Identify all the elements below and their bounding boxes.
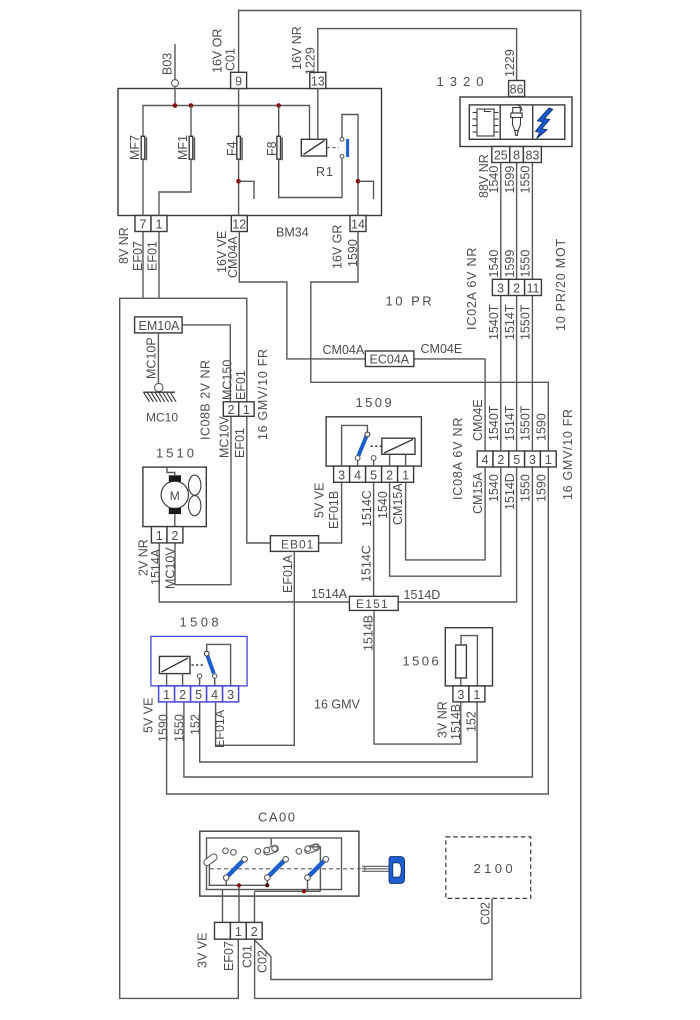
svg-text:2: 2 <box>386 468 393 482</box>
switch position capsule 3 <box>296 843 320 855</box>
wire BM34 pin 1 to EF07 rail <box>158 232 160 299</box>
pin 2 of 1508 <box>175 686 191 702</box>
svg-text:2: 2 <box>497 453 504 467</box>
svg-text:CM04A: CM04A <box>226 236 240 278</box>
svg-text:E151: E151 <box>356 597 389 611</box>
junction dot pin 1 bus <box>237 883 241 887</box>
svg-text:1590: 1590 <box>157 714 171 742</box>
pin 1 of 1510 <box>151 527 167 543</box>
svg-text:1514T: 1514T <box>503 405 517 441</box>
component 1320 (engine ECU function box) <box>460 97 572 147</box>
svg-text:IC08B 2V NR: IC08B 2V NR <box>199 359 213 440</box>
svg-text:3V NR: 3V NR <box>436 701 450 738</box>
svg-text:EM10A: EM10A <box>139 319 181 333</box>
svg-text:1590: 1590 <box>534 413 548 441</box>
svg-text:EF07: EF07 <box>131 241 145 271</box>
svg-text:1: 1 <box>545 453 552 467</box>
wire stub from pin-14 junction <box>358 181 374 199</box>
dashed actuator link of 1509 <box>371 445 382 447</box>
wire MC10P: EM10A to ground MC10 <box>157 333 159 383</box>
svg-text:1: 1 <box>156 218 163 232</box>
svg-text:1599: 1599 <box>503 166 517 194</box>
svg-text:MF1: MF1 <box>176 135 190 160</box>
pin 3 of 1509 <box>334 466 350 482</box>
component 2100 (dashed box) <box>446 837 531 899</box>
svg-text:1550T: 1550T <box>519 405 533 441</box>
pin blank of CA00 <box>215 922 231 939</box>
svg-text:4: 4 <box>211 688 218 702</box>
fuse F8 <box>278 106 280 137</box>
svg-text:1550T: 1550T <box>519 304 533 340</box>
svg-text:16 GMV/10 FR: 16 GMV/10 FR <box>256 348 270 440</box>
wire 1514C: 1509 pin 5 to splice E151 <box>373 482 375 596</box>
pivot contact of 1509 <box>365 432 370 437</box>
pin 9 of BM34 <box>231 72 247 88</box>
key icon <box>362 866 390 871</box>
motor brushes <box>169 475 181 481</box>
svg-text:1514D: 1514D <box>503 473 517 510</box>
svg-text:1510: 1510 <box>156 446 197 461</box>
svg-text:1590: 1590 <box>534 474 548 502</box>
pin 5 of 1508 <box>191 686 207 702</box>
svg-text:1540: 1540 <box>487 166 501 194</box>
fuse MF7 <box>141 136 145 159</box>
svg-text:1540: 1540 <box>487 474 501 502</box>
relay coil of 1508 <box>159 656 190 673</box>
icon IC chip in 1320 <box>473 109 499 136</box>
wire 1229: BM34 pin 13 to 1320 pin 86 <box>318 29 517 81</box>
svg-text:1540: 1540 <box>376 491 390 519</box>
svg-text:MC10V: MC10V <box>164 547 178 589</box>
svg-text:CM15A: CM15A <box>391 483 405 525</box>
svg-text:3: 3 <box>227 688 234 702</box>
connector IC02A pin 3 <box>492 279 508 295</box>
splice EB01 <box>270 536 318 552</box>
pin 1 of CA00 <box>230 922 246 939</box>
wire internal supply rail of BM34 <box>143 106 310 140</box>
svg-text:1550: 1550 <box>519 474 533 502</box>
svg-text:R1: R1 <box>316 165 334 179</box>
svg-text:1590: 1590 <box>346 239 360 267</box>
contact above pin 4 of 1508 <box>213 674 217 678</box>
svg-text:3V VE: 3V VE <box>196 933 210 968</box>
junction dot lever 2 foot <box>265 883 269 887</box>
relay R1 contact blade (blue) <box>346 139 349 157</box>
svg-text:EF01: EF01 <box>146 241 160 271</box>
switch blade of 1508 (blue) <box>208 656 214 674</box>
svg-text:11: 11 <box>527 282 540 296</box>
svg-text:2: 2 <box>251 925 258 939</box>
pin 3 of 1508 <box>223 686 239 702</box>
pin 25 of 1320 <box>492 147 510 163</box>
svg-text:14: 14 <box>351 218 365 232</box>
svg-text:3: 3 <box>497 282 504 296</box>
wire 1514T: IC02A pin 2 to IC08A pin 5 <box>516 296 518 452</box>
svg-text:CM04A: CM04A <box>323 343 365 357</box>
wire EF01: connector 2-1 pin 1 to splice EB01 <box>247 416 271 543</box>
svg-text:5: 5 <box>195 688 202 702</box>
wire CM04E: splice EC04A to IC08A pin 4 <box>414 359 485 451</box>
wire 1550: IC08A pin 3 to 1508 pin 2 <box>184 467 533 777</box>
svg-text:25: 25 <box>494 149 508 163</box>
svg-text:MF7: MF7 <box>128 135 142 160</box>
pin 4 of 1509 <box>350 466 366 482</box>
svg-text:IC02A 6V NR: IC02A 6V NR <box>465 247 479 330</box>
motor M circle <box>161 481 188 508</box>
svg-text:1514D: 1514D <box>404 588 441 602</box>
wire right loop to capsule 3 <box>309 847 320 892</box>
switch position capsule 1 <box>203 848 237 867</box>
wire 1540: 1320 pin 25 to IC02A pin 3 <box>500 163 502 280</box>
svg-text:EF07: EF07 <box>222 941 236 971</box>
wire MC150: splice EM10A to connector 2-1 pin 2 <box>182 325 230 402</box>
svg-text:1506: 1506 <box>403 654 442 669</box>
fuse F4 <box>238 89 240 137</box>
connector 2-1 pin 1 <box>239 402 254 417</box>
svg-text:10 PR: 10 PR <box>386 294 435 309</box>
svg-text:MC10P: MC10P <box>145 337 159 379</box>
svg-text:CM15A: CM15A <box>471 472 485 514</box>
svg-text:13: 13 <box>311 75 325 89</box>
component BM34 (fuse/relay box) <box>118 89 382 216</box>
connector IC08A pin 4 <box>477 451 493 467</box>
svg-text:2100: 2100 <box>474 861 517 876</box>
dashed actuator link of 1508 <box>192 664 204 666</box>
wire 1508 pivot to pin 3 <box>207 644 231 686</box>
svg-text:1: 1 <box>235 925 242 939</box>
svg-text:1320: 1320 <box>437 74 490 89</box>
svg-text:86: 86 <box>510 83 524 97</box>
junction dot B03/rail <box>173 103 178 108</box>
contact pin5 of 1509 <box>371 456 376 461</box>
svg-text:1514A: 1514A <box>149 548 163 585</box>
dashed mechanical link line <box>210 868 362 870</box>
relay R1 contacts <box>340 137 344 141</box>
svg-text:3: 3 <box>457 688 464 702</box>
bus wire to pin 2 <box>255 890 321 892</box>
svg-text:3: 3 <box>338 468 345 482</box>
splice E151 <box>349 596 398 610</box>
svg-text:1229: 1229 <box>503 49 517 77</box>
pin 3 of 1506 <box>453 686 469 702</box>
wire 1590: BM34 pin 14 to IC08A pin 1 <box>311 232 549 452</box>
svg-text:IC08A 6V NR: IC08A 6V NR <box>451 417 465 500</box>
svg-text:CM04E: CM04E <box>471 399 485 441</box>
wire C01 loop: BM34 pin 9 up, across top, down right side, along bottom to CA00 pin 2 <box>239 11 581 999</box>
wire BM34 pin 7 to EF07 rail <box>142 232 144 299</box>
svg-text:MC10V: MC10V <box>218 416 232 458</box>
svg-text:1599: 1599 <box>503 250 517 278</box>
svg-text:C02: C02 <box>479 902 493 925</box>
ground MC10 <box>155 383 163 391</box>
svg-text:F8: F8 <box>265 141 279 156</box>
wire unnumbered pin of CA00 <box>222 890 224 923</box>
svg-text:1550: 1550 <box>173 714 187 742</box>
svg-text:3: 3 <box>529 453 536 467</box>
pin 4 of 1508 <box>207 686 223 702</box>
svg-text:16 GMV/10 FR: 16 GMV/10 FR <box>561 408 575 500</box>
icon lightning bolt in 1320 <box>536 108 553 139</box>
svg-text:4: 4 <box>482 453 489 467</box>
svg-text:C02: C02 <box>256 950 270 973</box>
pin 2 of 1509 <box>382 466 398 482</box>
wire 152: 1506 pin 1 to 1508 pin 5 <box>200 702 477 762</box>
svg-text:16V NR: 16V NR <box>290 26 304 70</box>
junction dot F8/rail <box>276 103 281 108</box>
fan blades <box>189 475 201 495</box>
wire 1514B: splice E151 to 1506 pin 3 <box>374 610 461 744</box>
wire CM15A: IC08A pin 4 to 1509 pin 1 <box>406 467 486 560</box>
wire EF01B: 1509 pin 3 to splice EB01 <box>319 482 342 543</box>
wire R1 common contact to pin 14 <box>342 115 358 216</box>
svg-text:5: 5 <box>513 453 520 467</box>
svg-text:F4: F4 <box>225 141 239 156</box>
svg-text:152: 152 <box>189 714 203 735</box>
svg-text:CM04E: CM04E <box>421 342 463 356</box>
wire 1550: 1320 pin 83 to IC02A pin 11 <box>531 163 533 280</box>
svg-text:1514T: 1514T <box>503 304 517 340</box>
component 1508 (fan relay, blue) <box>151 636 247 686</box>
svg-text:B03: B03 <box>161 53 175 75</box>
relay R1 coil <box>301 139 326 156</box>
wire capsule 1 to bus <box>209 865 226 886</box>
junction dot MF1/rail <box>189 103 194 108</box>
svg-text:4: 4 <box>354 468 361 482</box>
pin 1 of 1508 <box>159 686 175 702</box>
svg-text:1508: 1508 <box>180 615 223 630</box>
wire top feed to capsule 2 <box>270 838 272 846</box>
wire 1514A: 1510 pin 1 to splice E151 <box>159 543 349 602</box>
pin 12 of BM34 <box>231 216 247 232</box>
svg-text:1540T: 1540T <box>487 304 501 340</box>
svg-text:5V VE: 5V VE <box>142 698 156 733</box>
pin 1 of BM34 <box>151 216 167 232</box>
component 1506 (fan resistor) <box>445 628 492 686</box>
svg-text:MC150: MC150 <box>221 360 235 400</box>
junction dot below F4 <box>236 179 241 184</box>
switch position capsule 2 <box>255 844 279 856</box>
wire EF07/EF01 rail: CA00 pin 1 down, along bottom, up left side, rail to 2-1 connector <box>120 298 247 998</box>
svg-text:8: 8 <box>513 149 520 163</box>
svg-text:10 PR/20 MOT: 10 PR/20 MOT <box>554 238 568 331</box>
wire 1550T: IC02A pin 11 to IC08A pin 3 <box>531 296 533 452</box>
fuse MF1 <box>190 106 192 137</box>
component 1510 (fan motor) <box>143 467 206 526</box>
svg-text:BM34: BM34 <box>276 226 309 240</box>
pivot contact of 1508 <box>204 651 209 656</box>
svg-text:C01: C01 <box>241 945 255 968</box>
svg-text:EF01A: EF01A <box>213 709 227 748</box>
svg-text:16V GR: 16V GR <box>331 225 345 269</box>
switch lever 1 (blue) <box>227 860 244 877</box>
connector IC08A pin 1 <box>540 451 556 467</box>
wire 1540T: IC02A pin 3 to IC08A pin 2 <box>500 296 502 452</box>
wire MC10V: 1510 pin 2 to connector 2-1 pin 2 <box>175 416 231 584</box>
svg-text:EF01: EF01 <box>233 428 247 458</box>
splice EM10A <box>135 317 183 333</box>
wire 1590: IC08A pin 1 to 1508 pin 1 <box>167 467 549 794</box>
svg-text:1514C: 1514C <box>360 545 374 582</box>
splice EC04A <box>365 351 414 367</box>
node B03 battery feed <box>174 44 176 80</box>
wire C02: 2100 to CA00 pin 2 <box>255 898 492 979</box>
svg-text:1550: 1550 <box>519 250 533 278</box>
svg-text:1: 1 <box>473 688 480 702</box>
svg-text:5: 5 <box>370 468 377 482</box>
wire 1514D: IC08A pin 5 to splice E151 <box>398 467 516 602</box>
svg-text:12: 12 <box>232 218 246 232</box>
wire 1599: 1320 pin 8 to IC02A pin 2 <box>516 163 518 280</box>
bus wire to pin 1 <box>226 880 267 885</box>
connector IC02A pin 11 <box>525 279 542 295</box>
svg-text:16 GMV: 16 GMV <box>314 698 361 712</box>
pin 1 of 1509 <box>398 466 414 482</box>
connector IC02A pin 2 <box>509 279 525 295</box>
switch lever 2 (blue) <box>268 860 285 877</box>
connector 2-1 pin 2 <box>223 402 238 417</box>
svg-text:1509: 1509 <box>356 395 395 410</box>
svg-text:2: 2 <box>179 688 186 702</box>
pin 8 of 1320 <box>510 147 524 163</box>
svg-text:9: 9 <box>235 75 242 89</box>
svg-text:1540T: 1540T <box>487 405 501 441</box>
svg-text:1514B: 1514B <box>362 615 376 651</box>
wire CM04A: BM34 pin 12 to splice EC04A <box>239 232 365 359</box>
pin 5 of 1509 <box>366 466 382 482</box>
junction dot lever 3 foot <box>302 889 306 893</box>
svg-text:1: 1 <box>163 688 170 702</box>
svg-text:1: 1 <box>156 529 163 543</box>
svg-text:1: 1 <box>243 403 250 417</box>
svg-text:1514C: 1514C <box>360 490 374 527</box>
icon injector in 1320 <box>511 105 522 136</box>
contact pin4 of 1509 <box>355 456 360 461</box>
switch blade of 1509 (blue) <box>359 436 367 456</box>
pin 2 of 1510 <box>167 527 183 543</box>
svg-text:152: 152 <box>465 711 479 732</box>
wire 1509 pin 3 to switch pivot <box>342 425 368 466</box>
svg-text:C01: C01 <box>224 48 238 71</box>
resistor element <box>456 645 467 678</box>
svg-text:1550: 1550 <box>519 166 533 194</box>
svg-text:1514B: 1514B <box>449 704 463 740</box>
pin 86 of 1320 <box>509 81 525 97</box>
svg-text:1229: 1229 <box>304 47 318 75</box>
pin 2 of CA00 <box>246 922 262 939</box>
wire 1540: IC08A pin 2 to 1509 pin 2 <box>390 467 501 576</box>
wire EF01A: splice EB01 to 1508 pin 4 <box>216 551 295 745</box>
switch lever 3 (blue) <box>309 860 326 877</box>
pin 1 of 1506 <box>469 686 485 702</box>
contact above pin 5 of 1508 <box>197 674 201 678</box>
svg-text:EF01A: EF01A <box>281 554 295 593</box>
component 1509 (fan relay) <box>326 417 421 466</box>
svg-text:2: 2 <box>172 529 179 543</box>
svg-text:CA00: CA00 <box>258 810 297 825</box>
svg-text:MC10: MC10 <box>146 411 178 425</box>
wire stub from F4 junction <box>239 181 254 199</box>
svg-text:EF01: EF01 <box>234 370 248 400</box>
svg-text:1514A: 1514A <box>311 587 348 601</box>
connector IC08A pin 3 <box>525 451 541 467</box>
relay coil of 1509 <box>382 438 415 454</box>
svg-text:5V VE: 5V VE <box>313 483 327 518</box>
svg-text:83: 83 <box>525 149 539 163</box>
svg-text:M: M <box>170 489 180 503</box>
svg-text:1540: 1540 <box>487 250 501 278</box>
pin 13 of BM34 <box>310 72 326 88</box>
pin 14 of BM34 <box>350 216 366 232</box>
svg-text:16V OR: 16V OR <box>211 29 225 73</box>
pin 7 of BM34 <box>135 216 151 232</box>
svg-text:EB01: EB01 <box>281 537 314 551</box>
component CA00 (ignition switch) <box>200 831 359 896</box>
svg-text:2: 2 <box>228 403 235 417</box>
pin 83 of 1320 <box>523 147 541 163</box>
relay R1 actuator dashed link <box>327 147 339 149</box>
svg-text:1: 1 <box>402 468 409 482</box>
svg-text:2: 2 <box>513 282 520 296</box>
svg-text:EF01B: EF01B <box>327 491 341 529</box>
svg-text:8V NR: 8V NR <box>117 227 131 264</box>
svg-text:7: 7 <box>140 218 147 232</box>
connector IC08A pin 5 <box>509 451 525 467</box>
svg-text:EC04A: EC04A <box>370 353 410 367</box>
connector IC08A pin 2 <box>493 451 509 467</box>
junction dot on pin-14 wire <box>356 179 361 184</box>
